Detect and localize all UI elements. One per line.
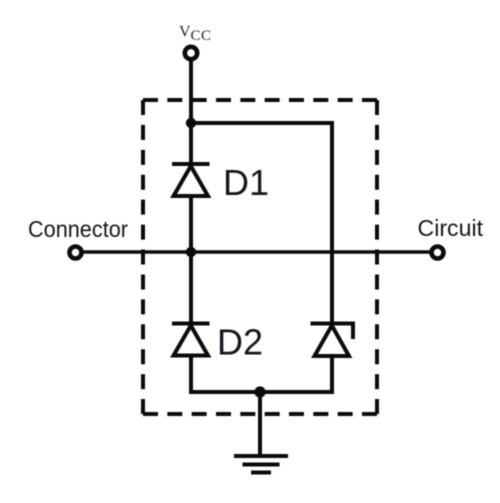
svg-text:D1: D1 — [223, 162, 269, 203]
svg-text:Connector: Connector — [28, 216, 128, 242]
svg-text:D2: D2 — [217, 322, 263, 363]
svg-text:V: V — [179, 24, 191, 41]
svg-text:CC: CC — [191, 28, 212, 44]
svg-text:Circuit: Circuit — [418, 215, 484, 241]
